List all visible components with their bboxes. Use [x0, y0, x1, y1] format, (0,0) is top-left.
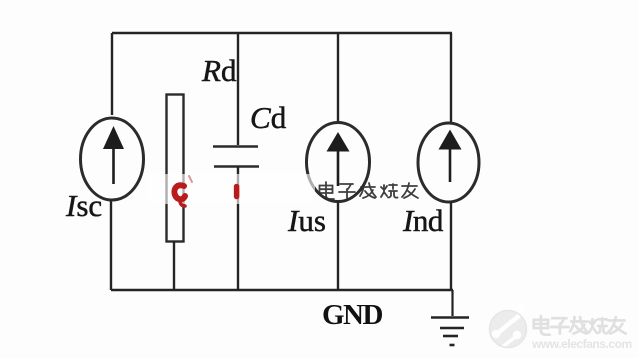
wire left branch top (rail to Isc)	[111, 33, 113, 115]
label Rd	[201, 53, 237, 88]
wire left branch bottom (Isc to bottom rail)	[110, 200, 112, 290]
ground	[431, 290, 469, 345]
wire Ius branch top (rail to Ius)	[337, 33, 339, 124]
dark CJK watermark glyph scribbles	[320, 182, 419, 199]
label GND	[322, 299, 383, 331]
label Ind	[402, 203, 444, 238]
current source Isc	[81, 118, 144, 200]
wire Ind branch bottom (Ind to bottom rail)	[450, 202, 452, 290]
wire bottom rail GND net	[111, 289, 453, 291]
current source Ind	[418, 123, 479, 202]
wire top rail	[112, 32, 452, 34]
wire resistor bottom lead	[173, 241, 175, 290]
resistor Rd	[167, 95, 184, 242]
current source Ius	[307, 123, 370, 202]
label Cd	[250, 100, 287, 135]
label Ius	[287, 203, 326, 238]
wire Ind branch top (rail to Ind)	[450, 33, 452, 124]
label Isc	[65, 188, 102, 223]
capacitor Cd	[213, 147, 259, 167]
wire capacitor bottom lead	[237, 167, 239, 290]
light gray CJK watermark glyph scribbles	[534, 316, 626, 335]
wire Ius branch bottom (Ius to bottom rail)	[337, 201, 339, 290]
wire capacitor top lead	[237, 33, 239, 145]
